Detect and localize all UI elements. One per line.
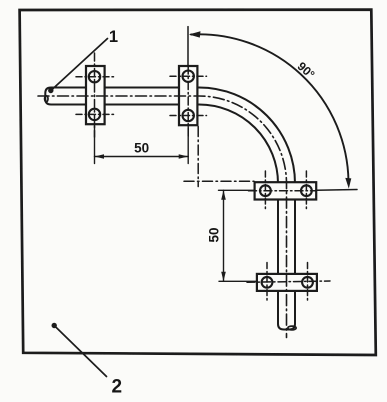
clamp 3 solid line to arc arrow xyxy=(316,189,357,192)
bolt hole bottom of clamp 2 xyxy=(183,110,194,121)
bolt hole right of clamp 4 xyxy=(302,277,313,288)
svg-text:2: 2 xyxy=(112,377,123,398)
clamp 1 top bolt horizontal centerline xyxy=(76,76,114,78)
leader line for reference 1 xyxy=(51,39,107,91)
clamp 3 right bolt vertical centerline xyxy=(305,171,307,211)
pipe open-end ellipse left xyxy=(45,96,48,102)
bolt hole top of clamp 2 xyxy=(183,71,194,82)
vertical dimension line 50 xyxy=(223,190,225,281)
arrowhead top of vertical dimension xyxy=(221,190,226,200)
svg-text:50: 50 xyxy=(206,227,221,242)
90-degree dimension arc xyxy=(191,34,349,181)
clamp 3 left bolt vertical centerline xyxy=(264,171,266,211)
bend center vertical crosshair xyxy=(197,127,199,187)
horizontal dimension extension line right xyxy=(187,126,189,164)
horizontal dimension extension line left xyxy=(94,125,96,164)
clamp 4 left bolt vertical centerline xyxy=(266,263,268,303)
horizontal dimension line 50 xyxy=(95,156,189,158)
clamp block 2 on horizontal pipe xyxy=(179,66,197,125)
arrowhead left of horizontal dimension xyxy=(95,154,105,159)
vertical dimension extension line top xyxy=(219,189,255,191)
bolt hole bottom of clamp 1 xyxy=(89,109,100,120)
extension line for 90-degree arc xyxy=(187,27,189,66)
clamp block 1 on horizontal pipe xyxy=(86,66,105,124)
arrowhead bottom end of 90-degree arc xyxy=(345,178,351,189)
leader dot for reference 2 xyxy=(52,323,57,328)
bolt hole top of clamp 1 xyxy=(89,71,100,82)
clamp 2 vertical centerline xyxy=(187,66,189,137)
clamp 4 right bolt vertical centerline xyxy=(307,263,309,303)
clamp 1 bottom bolt horizontal centerline xyxy=(76,113,114,115)
svg-text:50: 50 xyxy=(134,141,149,156)
arrowhead left end of 90-degree arc xyxy=(189,31,201,37)
bolt hole left of clamp 4 xyxy=(262,277,273,288)
svg-text:1: 1 xyxy=(109,28,118,46)
arrowhead bottom of vertical dimension xyxy=(221,272,226,282)
bend center horizontal crosshair xyxy=(184,180,254,182)
pipe open-end ellipse bottom xyxy=(288,326,296,330)
clamp 4 horizontal centerline xyxy=(247,281,330,282)
clamp block 4 lower on vertical pipe xyxy=(257,274,317,291)
bolt hole right of clamp 3 xyxy=(301,185,312,196)
clamp 3 horizontal centerline xyxy=(249,190,317,192)
pipe (elbow tube) outline xyxy=(45,88,295,330)
leader dot for reference 1 xyxy=(48,88,53,93)
clamp block 3 upper on vertical pipe xyxy=(255,182,317,199)
vertical dimension extension line bottom xyxy=(219,280,257,282)
svg-text:90°: 90° xyxy=(295,59,318,82)
clamp 2 bottom bolt horizontal centerline xyxy=(170,115,207,117)
clamp 2 top bolt horizontal centerline xyxy=(170,75,207,77)
border frame of plate xyxy=(20,10,376,355)
arrowhead right of horizontal dimension xyxy=(179,154,189,159)
pipe centerline dash-dot xyxy=(38,96,287,338)
leader line for reference 2 xyxy=(54,326,106,377)
clamp 1 vertical centerline xyxy=(94,53,96,137)
bolt hole left of clamp 3 xyxy=(260,185,271,196)
